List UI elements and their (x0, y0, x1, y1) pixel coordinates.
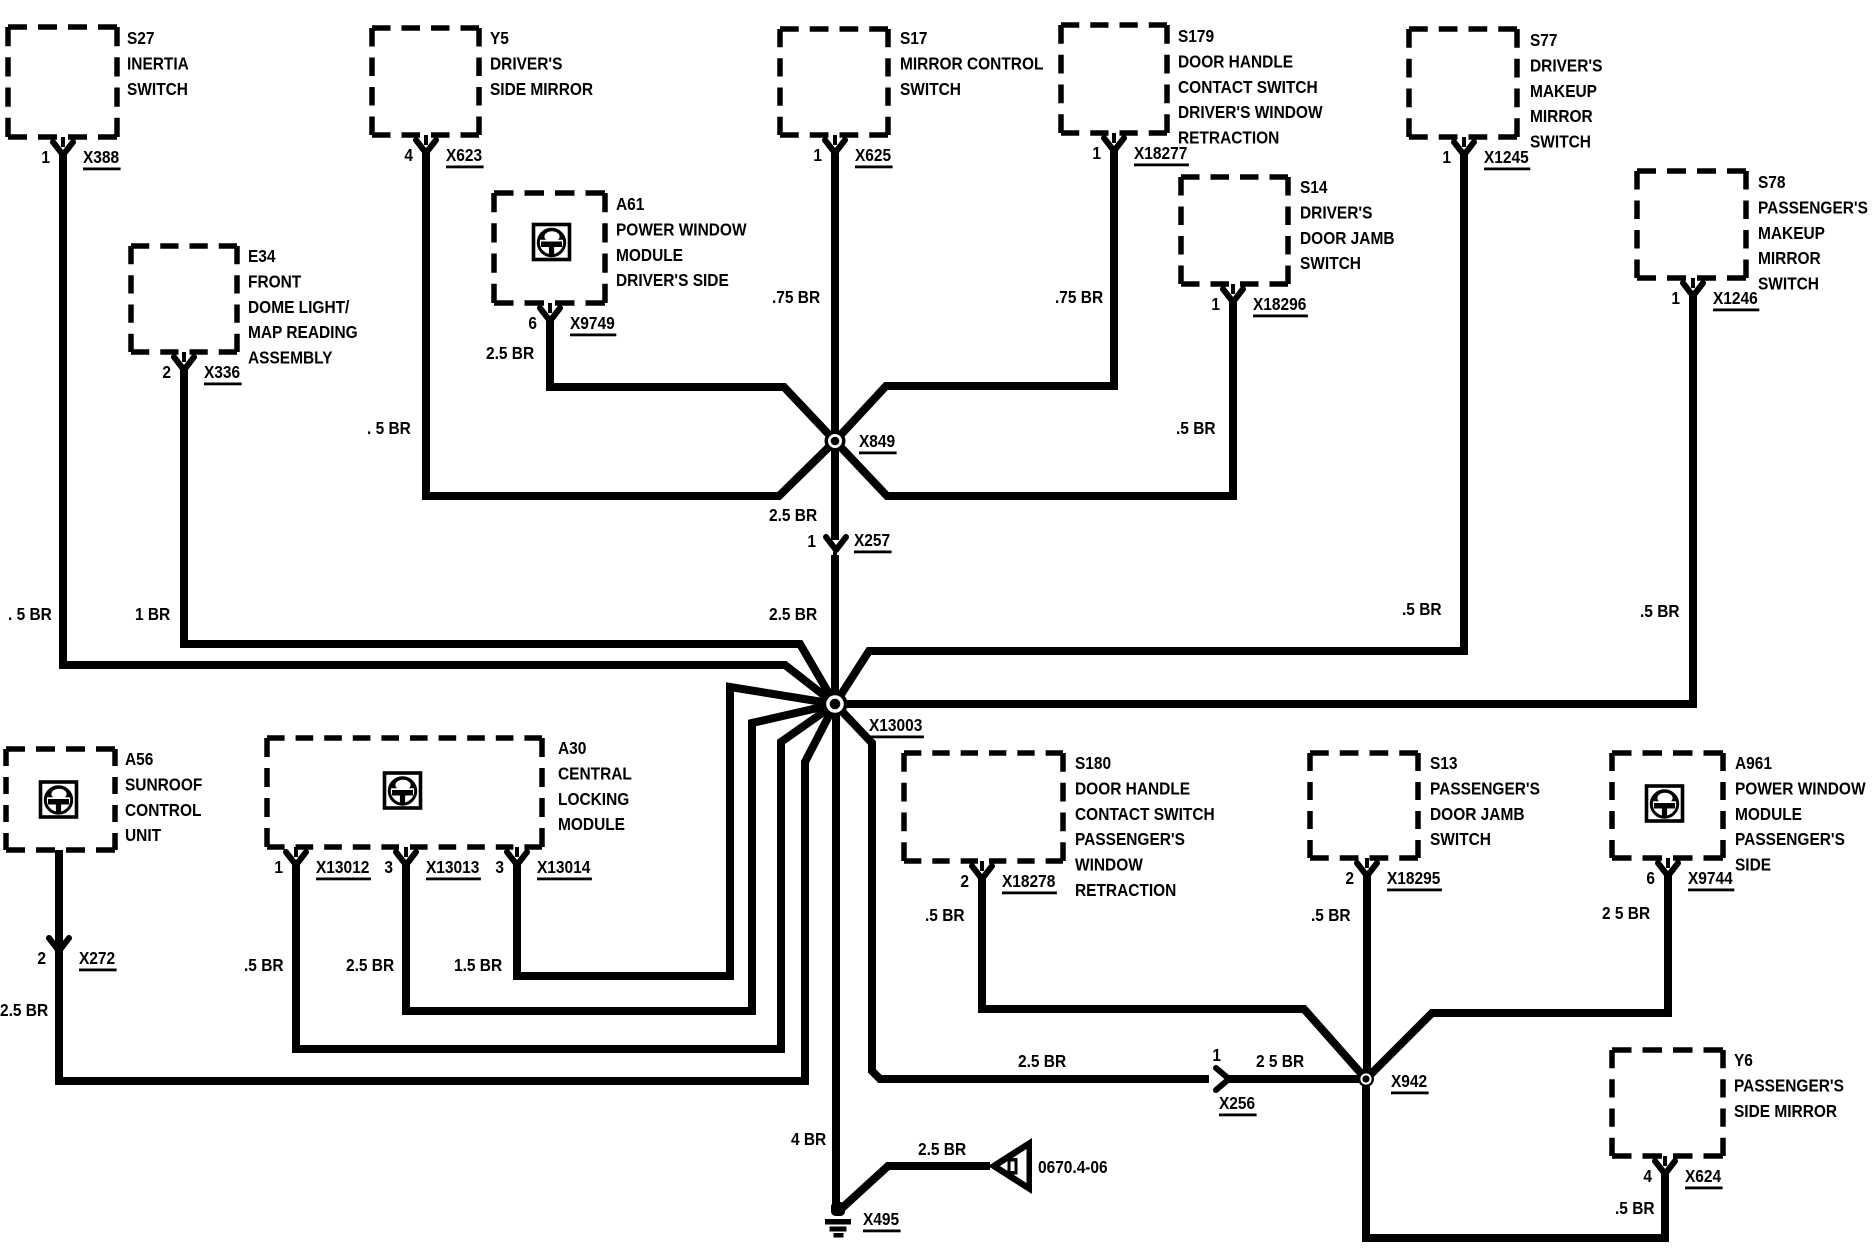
svg-text:4: 4 (1643, 1166, 1652, 1186)
driver makeup mirror switch S77 (1409, 29, 1602, 152)
wire A61 pin6 to X849 (2.5 BR) (550, 317, 835, 441)
svg-text:PASSENGER'S: PASSENGER'S (1758, 197, 1868, 217)
svg-text:X9749: X9749 (570, 313, 615, 333)
front dome light map reading assembly E34 (131, 246, 358, 368)
svg-text:SIDE: SIDE (1735, 855, 1771, 875)
connector X256 pin 1 (1212, 1045, 1256, 1116)
svg-text:MIRROR: MIRROR (1758, 248, 1821, 268)
svg-text:X18295: X18295 (1387, 868, 1440, 888)
svg-text:2: 2 (162, 362, 171, 382)
svg-text:X625: X625 (855, 145, 891, 165)
svg-text:X336: X336 (204, 362, 240, 382)
svg-text:2.5 BR: 2.5 BR (918, 1139, 966, 1159)
svg-text:1: 1 (1211, 294, 1220, 314)
svg-text:4 BR: 4 BR (791, 1129, 826, 1149)
svg-text:X18277: X18277 (1134, 143, 1187, 163)
svg-text:SWITCH: SWITCH (1530, 132, 1591, 152)
sunroof control unit A56 (6, 749, 202, 850)
svg-text:X849: X849 (859, 431, 895, 451)
svg-text:.5 BR: .5 BR (244, 955, 284, 975)
svg-text:S13: S13 (1430, 753, 1458, 773)
svg-text:A61: A61 (616, 194, 644, 214)
svg-text:2 5 BR: 2 5 BR (1602, 903, 1650, 923)
power window module driver side A61 (494, 193, 747, 303)
svg-text:.5 BR: .5 BR (1176, 418, 1216, 438)
svg-text:SWITCH: SWITCH (900, 79, 961, 99)
svg-text:2.5 BR: 2.5 BR (0, 1000, 48, 1020)
svg-text:X13012: X13012 (316, 857, 369, 877)
svg-text:1: 1 (813, 145, 822, 165)
svg-text:1: 1 (1442, 147, 1451, 167)
svg-text:MODULE: MODULE (558, 814, 625, 834)
svg-text:X18296: X18296 (1253, 294, 1306, 314)
svg-text:POWER WINDOW: POWER WINDOW (1735, 778, 1866, 798)
svg-text:2.5 BR: 2.5 BR (486, 343, 534, 363)
svg-text:MAKEUP: MAKEUP (1758, 223, 1825, 243)
svg-text:PASSENGER'S: PASSENGER'S (1734, 1075, 1844, 1095)
wire A30 X13013 to X13003 (2.5 BR) (406, 704, 835, 1011)
svg-text:DRIVER'S: DRIVER'S (1300, 202, 1372, 222)
svg-text:S27: S27 (127, 28, 155, 48)
svg-text:6: 6 (1646, 868, 1655, 888)
svg-text:.5 BR: .5 BR (1311, 905, 1351, 925)
svg-text:SIDE MIRROR: SIDE MIRROR (1734, 1101, 1837, 1121)
driver side mirror Y5 (372, 28, 593, 135)
svg-text:CONTACT SWITCH: CONTACT SWITCH (1178, 77, 1318, 97)
svg-text:WINDOW: WINDOW (1075, 855, 1143, 875)
wire X257 to X13003 (2.5 BR) (833, 548, 837, 557)
svg-text:DOME LIGHT/: DOME LIGHT/ (248, 297, 350, 317)
svg-text:X9744: X9744 (1688, 868, 1733, 888)
svg-text:3: 3 (495, 857, 504, 877)
wire X849 to X257 (2.5 BR) (831, 441, 839, 540)
svg-text:DRIVER'S: DRIVER'S (490, 53, 562, 73)
svg-text:A56: A56 (125, 749, 153, 769)
svg-text:X623: X623 (446, 145, 482, 165)
wire S179 pin1 to X849 (.75 BR) (835, 147, 1114, 441)
svg-text:X624: X624 (1685, 1166, 1722, 1186)
wire A961 pin6 to X942 (2 5 BR) (1366, 875, 1668, 1079)
svg-text:X388: X388 (83, 147, 119, 167)
svg-text:.5 BR: .5 BR (1615, 1198, 1655, 1218)
wire A56 pin2 via X272 to X13003 (2.5 BR) (59, 704, 835, 1081)
svg-text:SWITCH: SWITCH (1758, 274, 1819, 294)
wire X495 to triangle 0670.4-06 (2.5 BR) (841, 1166, 990, 1209)
svg-text:CONTROL: CONTROL (125, 800, 201, 820)
power window module passenger side A961 (1612, 753, 1866, 875)
svg-text:X272: X272 (79, 948, 115, 968)
svg-text:MIRROR CONTROL: MIRROR CONTROL (900, 53, 1043, 73)
svg-text:X1246: X1246 (1713, 288, 1758, 308)
svg-text:ASSEMBLY: ASSEMBLY (248, 348, 332, 368)
connector X624 pin 4 (1643, 1156, 1722, 1189)
connector X18277 pin 1 (1092, 133, 1189, 166)
connector X9744 pin 6 (1646, 858, 1734, 891)
svg-text:DOOR HANDLE: DOOR HANDLE (1075, 778, 1190, 798)
svg-text:2.5 BR: 2.5 BR (769, 505, 817, 525)
svg-text:S180: S180 (1075, 753, 1111, 773)
svg-text:3: 3 (384, 857, 393, 877)
svg-text:2: 2 (960, 871, 969, 891)
svg-text:MODULE: MODULE (1735, 804, 1802, 824)
svg-text:E34: E34 (248, 246, 276, 266)
wire E34 pin2 to X13003 (1 BR) (184, 366, 835, 704)
svg-text:2 5 BR: 2 5 BR (1256, 1051, 1304, 1071)
svg-text:.75 BR: .75 BR (772, 287, 820, 307)
svg-text:Y5: Y5 (490, 28, 509, 48)
connector X272 pin 2 (37, 938, 116, 971)
connector X18295 pin 2 (1345, 858, 1442, 891)
svg-text:Y6: Y6 (1734, 1050, 1753, 1070)
svg-text:X256: X256 (1219, 1093, 1255, 1113)
svg-text:A961: A961 (1735, 753, 1772, 773)
svg-text:2.5 BR: 2.5 BR (346, 955, 394, 975)
svg-text:RETRACTION: RETRACTION (1178, 128, 1279, 148)
svg-text:X13013: X13013 (426, 857, 479, 877)
svg-text:1 BR: 1 BR (135, 604, 170, 624)
svg-text:2: 2 (1345, 868, 1354, 888)
svg-text:1.5 BR: 1.5 BR (454, 955, 502, 975)
connector X625 pin 1 (813, 135, 892, 168)
svg-text:S14: S14 (1300, 177, 1328, 197)
svg-text:RETRACTION: RETRACTION (1075, 880, 1176, 900)
connector X388 pin 1 (41, 137, 120, 170)
svg-text:SWITCH: SWITCH (127, 79, 188, 99)
svg-text:X495: X495 (863, 1209, 899, 1229)
svg-text:. 5 BR: . 5 BR (8, 604, 52, 624)
connector X13013 pin 3 (384, 847, 481, 880)
svg-text:SWITCH: SWITCH (1300, 253, 1361, 273)
svg-text:X13003: X13003 (869, 715, 922, 735)
svg-text:6: 6 (528, 313, 537, 333)
wire X13003 to ground X495 (4 BR) (832, 704, 840, 1205)
svg-text:.5 BR: .5 BR (1640, 601, 1680, 621)
svg-text:1: 1 (1671, 288, 1680, 308)
wire S17 pin1 to X849 (.75 BR) (831, 149, 839, 441)
svg-text:2: 2 (37, 948, 46, 968)
svg-text:. 5 BR: . 5 BR (367, 418, 411, 438)
svg-text:X942: X942 (1391, 1071, 1427, 1091)
svg-text:POWER WINDOW: POWER WINDOW (616, 219, 747, 239)
svg-text:0670.4-06: 0670.4-06 (1038, 1157, 1108, 1177)
svg-text:PASSENGER'S: PASSENGER'S (1735, 829, 1845, 849)
wire X942 to Y6 pin4 (.5 BR) (1366, 1079, 1665, 1238)
connector X623 pin 4 (404, 135, 483, 168)
svg-text:FRONT: FRONT (248, 271, 302, 291)
passenger door jamb switch S13 (1310, 753, 1540, 858)
connector X9749 pin 6 (528, 303, 616, 336)
svg-text:SUNROOF: SUNROOF (125, 774, 202, 794)
wire A30 X13014 to X13003 (1.5 BR) (517, 687, 835, 976)
passenger side mirror Y6 (1612, 1050, 1844, 1156)
connector X257 pin 1 (807, 530, 891, 553)
svg-text:DOOR HANDLE: DOOR HANDLE (1178, 51, 1293, 71)
svg-text:MAKEUP: MAKEUP (1530, 81, 1597, 101)
wire X13003 to X256 (2.5 BR) (835, 704, 1209, 1079)
svg-text:CONTACT SWITCH: CONTACT SWITCH (1075, 804, 1215, 824)
node X942 (1358, 1071, 1429, 1094)
svg-text:PASSENGER'S: PASSENGER'S (1075, 829, 1185, 849)
off-page reference triangle 0670.4-06 (988, 1138, 1108, 1194)
wire A30 X13012 to X13003 (.5 BR) (296, 704, 835, 1049)
driver door jamb switch S14 (1181, 177, 1394, 284)
svg-text:DRIVER'S WINDOW: DRIVER'S WINDOW (1178, 102, 1323, 122)
svg-text:SIDE MIRROR: SIDE MIRROR (490, 79, 593, 99)
svg-text:DRIVER'S SIDE: DRIVER'S SIDE (616, 270, 729, 290)
svg-text:.75 BR: .75 BR (1055, 287, 1103, 307)
connector X1245 pin 1 (1442, 137, 1530, 170)
door handle contact switch S180 (904, 753, 1215, 900)
svg-text:1: 1 (1092, 143, 1101, 163)
wire S77 pin1 to X13003 (.5 BR) (835, 151, 1464, 704)
connector X1246 pin 1 (1671, 278, 1759, 311)
svg-text:MIRROR: MIRROR (1530, 106, 1593, 126)
svg-text:4: 4 (404, 145, 413, 165)
wire S180 pin2 to X942 (.5 BR) (982, 875, 1366, 1079)
svg-text:X257: X257 (854, 530, 890, 550)
inertia switch S27 (8, 27, 189, 137)
wire S13 pin2 to X942 (.5 BR) (1363, 875, 1371, 1079)
svg-text:S179: S179 (1178, 26, 1214, 46)
svg-text:A30: A30 (558, 738, 586, 758)
central locking module A30 (267, 738, 632, 847)
wire S27 pin1 to X13003 (.5 BR) (63, 151, 835, 704)
connector X13014 pin 3 (495, 847, 592, 880)
svg-text:X18278: X18278 (1002, 871, 1055, 891)
svg-text:X1245: X1245 (1484, 147, 1529, 167)
svg-text:S17: S17 (900, 28, 928, 48)
svg-text:1: 1 (1212, 1045, 1221, 1065)
wire S78 pin1 to X13003 (.5 BR) (835, 292, 1693, 704)
svg-text:INERTIA: INERTIA (127, 53, 189, 73)
wire Y5 pin4 to X849 (.5 BR) (426, 149, 835, 496)
door handle contact switch S179 (1061, 25, 1323, 148)
svg-text:UNIT: UNIT (125, 825, 162, 845)
svg-text:S77: S77 (1530, 30, 1558, 50)
svg-text:DOOR JAMB: DOOR JAMB (1430, 804, 1524, 824)
node X13003 (823, 692, 924, 739)
svg-text:2.5 BR: 2.5 BR (769, 604, 817, 624)
connector X13012 pin 1 (274, 847, 371, 880)
wire X256 to X942 (2 5 BR) (1226, 1075, 1366, 1083)
svg-text:1: 1 (807, 531, 816, 551)
svg-text:DRIVER'S: DRIVER'S (1530, 55, 1602, 75)
svg-text:.5 BR: .5 BR (1402, 599, 1442, 619)
svg-text:SWITCH: SWITCH (1430, 829, 1491, 849)
mirror control switch S17 (780, 28, 1043, 135)
svg-text:MAP READING: MAP READING (248, 322, 358, 342)
node X849 (825, 431, 897, 455)
ground X495 (825, 1202, 901, 1238)
svg-text:.5 BR: .5 BR (925, 905, 965, 925)
svg-text:DOOR JAMB: DOOR JAMB (1300, 228, 1394, 248)
svg-text:PASSENGER'S: PASSENGER'S (1430, 778, 1540, 798)
passenger makeup mirror switch S78 (1637, 171, 1868, 294)
connector X18296 pin 1 (1211, 284, 1308, 317)
wire S14 pin1 to X849 (.5 BR) (835, 298, 1233, 496)
svg-text:S78: S78 (1758, 172, 1786, 192)
svg-text:2.5 BR: 2.5 BR (1018, 1051, 1066, 1071)
svg-text:MODULE: MODULE (616, 245, 683, 265)
connector X18278 pin 2 (960, 861, 1057, 894)
svg-text:CENTRAL: CENTRAL (558, 763, 632, 783)
svg-text:X13014: X13014 (537, 857, 591, 877)
svg-text:1: 1 (41, 147, 50, 167)
svg-text:LOCKING: LOCKING (558, 789, 629, 809)
svg-text:1: 1 (274, 857, 283, 877)
connector X336 pin 2 (162, 352, 241, 385)
